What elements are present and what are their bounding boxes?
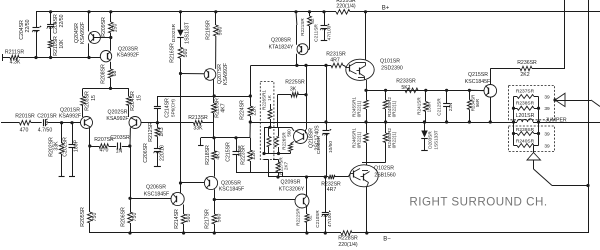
svg-text:39: 39 xyxy=(544,106,550,112)
svg-text:22/50: 22/50 xyxy=(25,19,31,32)
wire bias line y177 xyxy=(268,175,329,178)
wire Q102 collector xyxy=(365,187,368,235)
wire speaker return path xyxy=(534,169,590,187)
resistor R226SR1 1K xyxy=(268,104,272,129)
resistor R240SR 39 xyxy=(514,139,550,150)
svg-text:C203SR: C203SR xyxy=(110,135,130,141)
svg-text:R206SR: R206SR xyxy=(120,207,126,227)
svg-text:82: 82 xyxy=(308,215,313,221)
svg-text:C201SR: C201SR xyxy=(37,114,57,120)
wire audio input xyxy=(1,122,20,124)
svg-text:56R: 56R xyxy=(475,99,480,107)
wire Q209 collector xyxy=(306,177,308,196)
svg-text:47/100: 47/100 xyxy=(327,25,333,40)
inductor L201SR xyxy=(516,113,535,122)
wire Q202 base xyxy=(141,122,157,124)
svg-text:4K7: 4K7 xyxy=(216,150,222,159)
svg-text:KSC1845F: KSC1845F xyxy=(465,79,490,85)
diode D203SR 1SS133T xyxy=(421,120,438,150)
svg-text:R238SR: R238SR xyxy=(516,100,535,106)
capacitor C201SR 4.7/50 xyxy=(37,114,57,134)
svg-text:KSC1845F: KSC1845F xyxy=(144,192,169,198)
resistor R220SR 4K7 xyxy=(212,79,227,138)
svg-text:R209SR: R209SR xyxy=(101,17,107,37)
svg-text:560: 560 xyxy=(183,49,189,58)
resistor R227SR 2K7 xyxy=(264,157,289,177)
svg-text:220/10: 220/10 xyxy=(160,145,166,161)
svg-text:150K: 150K xyxy=(427,101,432,113)
svg-text:R236SR: R236SR xyxy=(517,60,537,66)
trimmer R225SR 3K xyxy=(278,79,307,127)
resistor R246SR2 0R22(1) xyxy=(383,122,396,163)
svg-text:C215SR: C215SR xyxy=(226,142,232,162)
svg-text:15: 15 xyxy=(137,95,143,101)
capacitor C211SR 47/100 xyxy=(314,12,333,42)
svg-text:0R22(1): 0R22(1) xyxy=(391,100,396,117)
stub terminal left of node xyxy=(198,138,214,146)
svg-text:R219SR: R219SR xyxy=(206,20,212,40)
svg-text:10K: 10K xyxy=(59,39,65,49)
resistor R208SR 68 xyxy=(101,62,119,89)
svg-text:R223SR: R223SR xyxy=(241,145,247,165)
resistor R206SR 750 xyxy=(120,207,138,233)
svg-text:R241SR: R241SR xyxy=(417,97,422,115)
wire emitter sense line y90.3 xyxy=(366,89,485,92)
wire Q208 collector to rail xyxy=(295,12,298,45)
svg-text:Q206SR: Q206SR xyxy=(146,185,166,191)
svg-text:Q208SR: Q208SR xyxy=(271,37,291,43)
svg-text:470: 470 xyxy=(20,128,29,134)
svg-text:RIGHT SURROUND CH.: RIGHT SURROUND CH. xyxy=(409,196,547,209)
svg-text:560: 560 xyxy=(218,27,224,36)
wire B- bottom rail xyxy=(90,231,588,234)
svg-text:3K: 3K xyxy=(290,86,297,92)
svg-text:R237SR: R237SR xyxy=(516,89,535,95)
terminal C206 xyxy=(154,166,161,168)
resistor R214SR 560 xyxy=(174,209,192,233)
svg-text:560: 560 xyxy=(287,129,292,137)
svg-text:1K: 1K xyxy=(267,94,272,101)
svg-text:82: 82 xyxy=(310,18,315,24)
svg-text:1SS133T: 1SS133T xyxy=(434,130,439,149)
ground R202 xyxy=(59,176,65,178)
svg-text:R239SR: R239SR xyxy=(516,127,535,133)
svg-text:150: 150 xyxy=(113,24,119,33)
svg-text:22N: 22N xyxy=(448,103,453,111)
connector triangle output xyxy=(553,93,600,106)
capacitor C215SR 100P xyxy=(226,138,244,173)
svg-text:4K7: 4K7 xyxy=(221,103,227,112)
svg-text:4R7: 4R7 xyxy=(327,187,337,193)
resistor R226SR 560 xyxy=(279,129,295,154)
transistor Q209SR KTC3206Y xyxy=(279,179,309,208)
svg-text:R228SR: R228SR xyxy=(338,235,358,241)
resistor R207SR 470 xyxy=(90,137,114,153)
capacitor C214SR 5P6(CH) xyxy=(154,96,176,123)
svg-text:R240SR: R240SR xyxy=(516,139,535,145)
svg-text:220(1/4): 220(1/4) xyxy=(338,242,358,248)
capacitor C208SR 10/50 bootstrap xyxy=(316,65,334,177)
wire Q215 emitter down xyxy=(489,97,492,124)
svg-text:0R22(1): 0R22(1) xyxy=(356,131,361,148)
capacitor C210SR 47/100 xyxy=(315,177,332,233)
wire box1 side bars xyxy=(512,97,540,123)
svg-text:C202SR: C202SR xyxy=(63,137,69,157)
resistor R202SR 33K xyxy=(49,123,64,176)
svg-text:R229SR: R229SR xyxy=(336,0,356,4)
resistor R245SR1 0R22(1) xyxy=(352,90,369,122)
transistor Q203SR KSA992F xyxy=(100,47,139,62)
svg-text:R233SR: R233SR xyxy=(396,78,416,84)
svg-text:4.3K: 4.3K xyxy=(10,59,21,65)
resistor R216SR 560 xyxy=(170,37,190,193)
resistor R236SR 2K2 xyxy=(490,60,565,78)
svg-text:33K: 33K xyxy=(193,126,203,132)
svg-text:1K3: 1K3 xyxy=(159,127,165,136)
svg-text:22K: 22K xyxy=(252,106,258,116)
transistor Q102SR 2SB1560 xyxy=(350,165,396,187)
svg-text:C212SR: C212SR xyxy=(437,98,442,116)
wire bias bus xyxy=(19,56,100,59)
wire Q205 emitter to R217 xyxy=(213,189,216,214)
svg-text:2SB1560: 2SB1560 xyxy=(374,172,395,178)
dashed box R226SR1 xyxy=(260,81,274,159)
resistor R241SR 150K xyxy=(417,90,432,122)
resistor R203SR 15 xyxy=(81,88,97,117)
transistor Q206SR KSC1845F xyxy=(144,185,184,206)
transistor Q218SR 2SC1740S xyxy=(294,125,321,151)
wire Q101 emitter node xyxy=(364,89,367,92)
svg-text:KSA992F: KSA992F xyxy=(223,63,229,85)
svg-text:D202SR: D202SR xyxy=(171,23,177,42)
svg-text:1SS133T: 1SS133T xyxy=(185,21,191,43)
resistor R237SR 39 xyxy=(514,89,550,101)
node line A xyxy=(157,94,252,97)
wire Q102 base line xyxy=(348,174,350,177)
svg-text:C208SR: C208SR xyxy=(316,135,322,154)
resistor R212SR 1K3 xyxy=(148,122,165,149)
svg-text:R204SR: R204SR xyxy=(130,91,136,111)
resistor R232SR 4R7 xyxy=(321,175,348,193)
svg-text:KTA1824Y: KTA1824Y xyxy=(269,44,294,50)
svg-text:D203SR: D203SR xyxy=(428,131,433,149)
svg-text:22K: 22K xyxy=(251,150,257,160)
node dot Q207 base branch xyxy=(179,72,182,75)
svg-text:Q202SR: Q202SR xyxy=(108,110,128,116)
transistor Q215SR KSC1845F xyxy=(465,72,497,97)
wire right vertical x588 xyxy=(588,0,590,233)
dashed box R237/R238 xyxy=(509,86,555,120)
svg-text:KTC3206Y: KTC3206Y xyxy=(279,186,305,192)
svg-text:470: 470 xyxy=(100,148,109,154)
svg-text:R214SR: R214SR xyxy=(174,209,180,229)
wire C201 to Q201 base xyxy=(47,121,80,124)
svg-text:Q215SR: Q215SR xyxy=(468,72,488,78)
svg-text:Q102SR: Q102SR xyxy=(374,165,394,171)
wire Q102 emitter bar xyxy=(362,162,386,164)
resistor R217SR 560 xyxy=(205,209,223,233)
wire main output line xyxy=(250,120,600,123)
svg-text:39: 39 xyxy=(544,131,550,137)
svg-text:33K: 33K xyxy=(54,141,60,151)
resistor R211SR 4.3K xyxy=(3,49,25,65)
wire to Q207 base xyxy=(181,73,205,75)
svg-text:Q209SR: Q209SR xyxy=(281,179,301,185)
svg-text:4.7/50: 4.7/50 xyxy=(38,128,53,134)
svg-text:5P6(CH): 5P6(CH) xyxy=(171,99,176,117)
svg-text:560: 560 xyxy=(186,214,192,223)
resistor R229SR 220(1/4) inline on B+ rail xyxy=(336,0,356,14)
svg-text:39: 39 xyxy=(544,94,550,100)
wire Q205 bias line to Q209 base xyxy=(214,199,295,201)
resistor R238SR 39 xyxy=(514,100,550,112)
resistor R209SR 150 xyxy=(101,12,119,51)
svg-text:560: 560 xyxy=(217,214,223,223)
wire x250 column xyxy=(250,65,252,106)
svg-text:100P: 100P xyxy=(74,139,80,152)
resistor R201SR 470 xyxy=(15,114,35,134)
resistor R239SR 39 xyxy=(514,127,550,137)
svg-text:0R22(1): 0R22(1) xyxy=(391,131,396,148)
transistor Q101SR 2SD2390 xyxy=(346,12,403,91)
capacitor C212SR 22N xyxy=(437,90,454,122)
wire Q206 base xyxy=(130,198,171,200)
wire Q101 base line xyxy=(343,65,346,67)
label JUMPER xyxy=(545,118,567,124)
svg-text:KSC1845F: KSC1845F xyxy=(219,187,244,193)
svg-text:KSA992F: KSA992F xyxy=(80,22,86,44)
svg-text:KSA992F: KSA992F xyxy=(117,53,139,59)
svg-text:B−: B− xyxy=(383,236,391,242)
wire box2 side bars xyxy=(512,122,540,146)
solid loop with R226SR2 pair xyxy=(262,127,280,155)
capacitor C205SR 22/50 and resistor R210SR 10K xyxy=(47,12,65,58)
svg-text:1N: 1N xyxy=(116,149,123,155)
svg-text:R201SR: R201SR xyxy=(15,114,35,120)
transistor Q201SR KSA992F xyxy=(59,108,93,129)
wire Q208 emitter xyxy=(296,54,298,66)
capacitor C203SR 1N xyxy=(109,135,131,154)
svg-text:JUMPER: JUMPER xyxy=(545,118,567,124)
resistor R246SR1 0R22(1) xyxy=(352,122,369,165)
svg-text:4R7: 4R7 xyxy=(330,57,340,63)
svg-text:R224SR: R224SR xyxy=(239,100,245,120)
svg-text:R226SR1: R226SR1 xyxy=(261,90,266,110)
resistor R219SR 560 xyxy=(206,12,224,69)
label B+ xyxy=(382,6,390,12)
wire y173 bias bottom xyxy=(236,173,283,178)
wire Q205 base xyxy=(181,182,205,184)
svg-text:KSA992F: KSA992F xyxy=(106,116,128,122)
resistor R205SR 750 xyxy=(80,207,98,233)
svg-text:5K1: 5K1 xyxy=(401,85,410,91)
resistor R204SR 15 xyxy=(127,88,143,117)
wire loop to Q218 collector xyxy=(279,127,295,131)
svg-text:47/100: 47/100 xyxy=(327,213,332,227)
resistor R224SR 22K xyxy=(239,100,257,138)
resistor R231SR 4R7 xyxy=(326,51,346,67)
diode D202SR 1SS133T xyxy=(171,12,191,44)
resistor R233SR 5K1 xyxy=(366,78,426,92)
svg-text:0R22(1): 0R22(1) xyxy=(356,100,361,117)
svg-text:R218SR: R218SR xyxy=(205,145,211,165)
svg-text:R208SR: R208SR xyxy=(101,64,107,84)
capacitor C202SR 100P xyxy=(63,123,80,176)
label B- xyxy=(383,236,391,242)
svg-text:R213SR: R213SR xyxy=(188,115,208,121)
connector triangle to B- xyxy=(527,146,541,170)
wire line-B VAS output xyxy=(251,64,331,67)
transistor Q207SR KSA992F xyxy=(204,63,229,85)
transistor Q204SR KSA992F xyxy=(74,12,111,58)
svg-text:C206SR: C206SR xyxy=(143,143,149,163)
wire Q209 emitter xyxy=(306,206,308,214)
svg-text:15: 15 xyxy=(91,95,97,101)
wire Q206 emitter to R214 xyxy=(183,205,185,215)
svg-text:C210SR: C210SR xyxy=(315,210,320,228)
resistor R223SR 22K xyxy=(241,138,258,173)
svg-text:220(1/4): 220(1/4) xyxy=(336,4,356,10)
svg-text:R225SR: R225SR xyxy=(285,79,305,85)
svg-text:R203SR: R203SR xyxy=(85,91,91,111)
svg-text:68: 68 xyxy=(112,71,118,77)
svg-text:R211SR: R211SR xyxy=(5,49,24,55)
resistor R222SR 82 xyxy=(296,208,313,233)
svg-text:R222SR: R222SR xyxy=(296,208,301,226)
resistor R213SR 33K xyxy=(157,115,214,132)
svg-text:39: 39 xyxy=(544,143,550,149)
ground C202 xyxy=(69,176,75,178)
svg-text:2SD2390: 2SD2390 xyxy=(381,65,403,71)
capacitor C204SR 22/50 xyxy=(19,12,41,58)
svg-text:Q101SR: Q101SR xyxy=(380,58,400,64)
svg-text:R216SR: R216SR xyxy=(170,43,176,63)
svg-text:22/50: 22/50 xyxy=(59,14,65,27)
resistor R218SR 4K7 xyxy=(205,138,222,177)
wire B+ top rail xyxy=(36,11,600,13)
svg-text:C211SR: C211SR xyxy=(314,24,320,42)
wire output node dots xyxy=(364,120,387,123)
svg-text:10/50: 10/50 xyxy=(328,141,334,153)
dashed box R239/R240 xyxy=(509,126,555,152)
wire Q201 collector xyxy=(88,128,91,212)
svg-text:750: 750 xyxy=(92,213,98,222)
transistor Q205SR KSC1845F xyxy=(204,176,244,192)
wire right vertical x565 xyxy=(564,0,566,69)
svg-text:2K2: 2K2 xyxy=(520,72,529,78)
resistor R228SR 220(1/4) xyxy=(338,231,358,248)
wire Q215 base xyxy=(469,89,484,91)
label RIGHT SURROUND CH. xyxy=(409,196,547,209)
capacitor C206SR 220/10 xyxy=(143,143,166,167)
wire bias rail right xyxy=(214,136,250,139)
transistor Q202SR KSA992F xyxy=(106,110,141,129)
node x306 column xyxy=(304,65,307,129)
svg-text:2K7: 2K7 xyxy=(284,161,289,170)
svg-text:R212SR: R212SR xyxy=(148,122,154,142)
svg-text:B+: B+ xyxy=(382,6,390,12)
wire R201 to C201 xyxy=(31,122,42,124)
wire Q215 collector up xyxy=(490,69,492,85)
node dot feedback xyxy=(156,121,159,124)
svg-text:KSA992F: KSA992F xyxy=(59,114,81,120)
wire diff emitter bus xyxy=(83,87,129,90)
svg-text:R205SR: R205SR xyxy=(80,207,86,227)
junction dots on top rail xyxy=(49,10,367,13)
wire Q202 collector xyxy=(128,128,131,212)
node dot bias rail xyxy=(212,136,215,139)
resistor R234SR 56R xyxy=(467,90,480,122)
resistor R221SR 82 xyxy=(300,12,315,50)
node dot Q205 base branch xyxy=(179,181,182,184)
svg-text:R217SR: R217SR xyxy=(205,209,211,229)
svg-text:750: 750 xyxy=(132,213,138,222)
svg-text:R221SR: R221SR xyxy=(300,18,305,36)
svg-text:L201SR: L201SR xyxy=(516,113,535,119)
resistor R245SR2 0R22(1) xyxy=(383,90,396,122)
transistor Q208SR KTA1824Y xyxy=(269,37,308,54)
